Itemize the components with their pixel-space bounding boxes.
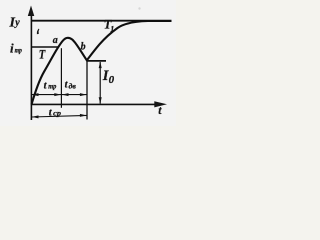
faint speckle top right	[138, 7, 140, 9]
svg-text:тр: тр	[48, 81, 56, 90]
dimension line t_sr span	[31, 115, 87, 117]
I_y steady-state level line	[31, 20, 171, 22]
dimension line t_tr span	[31, 94, 61, 96]
svg-text:i: i	[10, 40, 14, 55]
svg-text:у: у	[14, 17, 20, 28]
extension line at end of motion (right vertical)	[86, 61, 88, 120]
svg-text:b: b	[81, 42, 86, 53]
svg-text:дв: дв	[69, 81, 77, 90]
time axis (horizontal)	[31, 103, 157, 105]
extension line at t_tr (mid vertical)	[60, 48, 62, 108]
current axis (vertical)	[30, 13, 32, 120]
arrowheads t_sr	[32, 115, 39, 118]
small i mark near curve	[37, 29, 40, 35]
current curve i(t)	[32, 21, 172, 105]
svg-text:ср: ср	[53, 109, 61, 118]
vertical dimension line I_0	[99, 62, 101, 104]
svg-text:a: a	[53, 35, 58, 46]
time axis arrowhead	[154, 101, 167, 107]
vertical dim arrowheads	[99, 61, 102, 68]
i_tr pickup level line	[31, 46, 58, 48]
arrowheads dim row 1	[32, 93, 39, 96]
dip level line at point b	[87, 60, 106, 62]
svg-text:1: 1	[110, 24, 114, 33]
svg-text:тр: тр	[15, 46, 22, 55]
svg-text:0: 0	[109, 74, 115, 86]
current axis arrowhead	[28, 6, 35, 17]
dimension line t_dv span	[61, 94, 87, 96]
svg-text:T: T	[39, 46, 46, 61]
